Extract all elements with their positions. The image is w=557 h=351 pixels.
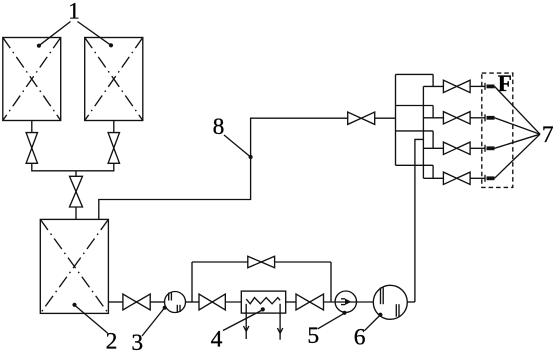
tank 1a bbox=[3, 38, 61, 121]
pump P6 bbox=[373, 285, 407, 319]
svg-text:1: 1 bbox=[68, 0, 80, 24]
valve VBP bypass bbox=[248, 256, 275, 267]
valve VG1 bbox=[443, 80, 470, 92]
nozzle 4 bbox=[485, 175, 495, 182]
manifold rail top bbox=[396, 73, 434, 75]
valve VC above tank 2 bbox=[70, 176, 83, 207]
wire branch 4 bbox=[423, 177, 443, 179]
valve V8 on line 8 bbox=[348, 112, 375, 124]
wire bypass top left bbox=[192, 261, 248, 263]
wire header join bbox=[32, 170, 114, 172]
valve VE bbox=[199, 294, 225, 310]
wire pump3 to valve VE bbox=[186, 301, 200, 303]
label 2 bbox=[72, 303, 117, 351]
wire tank1b to valve bbox=[113, 121, 115, 133]
wire bypass left riser bbox=[191, 262, 193, 302]
wire valve VF to meter 5 bbox=[324, 301, 374, 303]
pump P3 bbox=[165, 292, 186, 313]
manifold jumper 3 bbox=[432, 131, 434, 148]
manifold jumper 4 bbox=[432, 165, 434, 178]
label 5 bbox=[307, 311, 346, 349]
wire riser to manifold bbox=[415, 139, 424, 302]
wire valve VB down bbox=[113, 163, 115, 171]
svg-text:2: 2 bbox=[106, 329, 118, 351]
heat exchanger E4 bbox=[241, 291, 285, 313]
svg-text:4: 4 bbox=[211, 326, 223, 351]
manifold rail 3 bbox=[396, 130, 434, 132]
manifold header V1 bbox=[395, 74, 397, 165]
wire branch 1 to box bbox=[470, 85, 485, 87]
wire to valve VC bbox=[75, 171, 77, 177]
wire branch 3 bbox=[423, 147, 443, 149]
wire line 8 (tank2 top to manifold) bbox=[99, 118, 396, 219]
valve VA under tank 1a bbox=[26, 133, 37, 164]
wire bypass right riser bbox=[330, 262, 332, 302]
wire HX to valve VF bbox=[286, 301, 296, 303]
valve VG2 bbox=[443, 112, 470, 124]
wire bypass top right bbox=[275, 261, 331, 263]
valve VG3 bbox=[443, 142, 470, 154]
nozzle 3 bbox=[485, 145, 495, 152]
manifold rail bottom bbox=[396, 164, 434, 166]
wire tank2 outlet bbox=[108, 301, 123, 303]
tank 2 bbox=[40, 219, 108, 313]
label 7 bbox=[495, 86, 554, 178]
furnace box F (dashed) bbox=[482, 73, 513, 187]
svg-text:8: 8 bbox=[213, 114, 225, 140]
wire tank1a to valve bbox=[31, 121, 33, 133]
svg-text:5: 5 bbox=[307, 323, 319, 349]
wire branch 3 to box bbox=[470, 147, 485, 149]
valve VF bbox=[296, 294, 324, 310]
manifold jumper 2 bbox=[432, 106, 434, 118]
wire pump6 to riser bbox=[407, 301, 415, 303]
manifold jumper 1 bbox=[432, 74, 434, 86]
label 6 bbox=[354, 313, 383, 351]
valve VB under tank 1b bbox=[108, 133, 119, 164]
nozzle 1 bbox=[485, 83, 495, 90]
wire branch 2 to box bbox=[470, 117, 485, 119]
label 4 bbox=[211, 307, 265, 351]
wire valve VE to HX bbox=[225, 301, 241, 303]
wire valve VC to tank 2 bbox=[75, 207, 77, 219]
wire HX drain right with arrow bbox=[277, 304, 282, 340]
wire branch 1 bbox=[423, 85, 443, 87]
wire valve VA down bbox=[31, 163, 33, 171]
svg-text:6: 6 bbox=[354, 324, 366, 350]
manifold header V2 bbox=[422, 86, 424, 178]
valve VD bbox=[123, 294, 150, 310]
svg-text:F: F bbox=[498, 71, 512, 97]
wire branch 4 to box bbox=[470, 177, 485, 179]
wire HX drain left with arrow bbox=[244, 304, 249, 339]
wire valve VD to pump 3 bbox=[150, 301, 164, 303]
nozzle 2 bbox=[485, 114, 495, 121]
svg-text:3: 3 bbox=[131, 330, 143, 351]
flow indicator 5 bbox=[335, 291, 356, 312]
tank 1b bbox=[85, 38, 143, 121]
valve VG4 bbox=[443, 172, 470, 184]
label 1 bbox=[37, 0, 113, 48]
label 3 bbox=[131, 306, 166, 351]
wire branch 2 bbox=[423, 117, 443, 119]
manifold rail 2 bbox=[396, 105, 434, 107]
label 8 bbox=[213, 114, 253, 159]
svg-text:7: 7 bbox=[542, 122, 554, 148]
